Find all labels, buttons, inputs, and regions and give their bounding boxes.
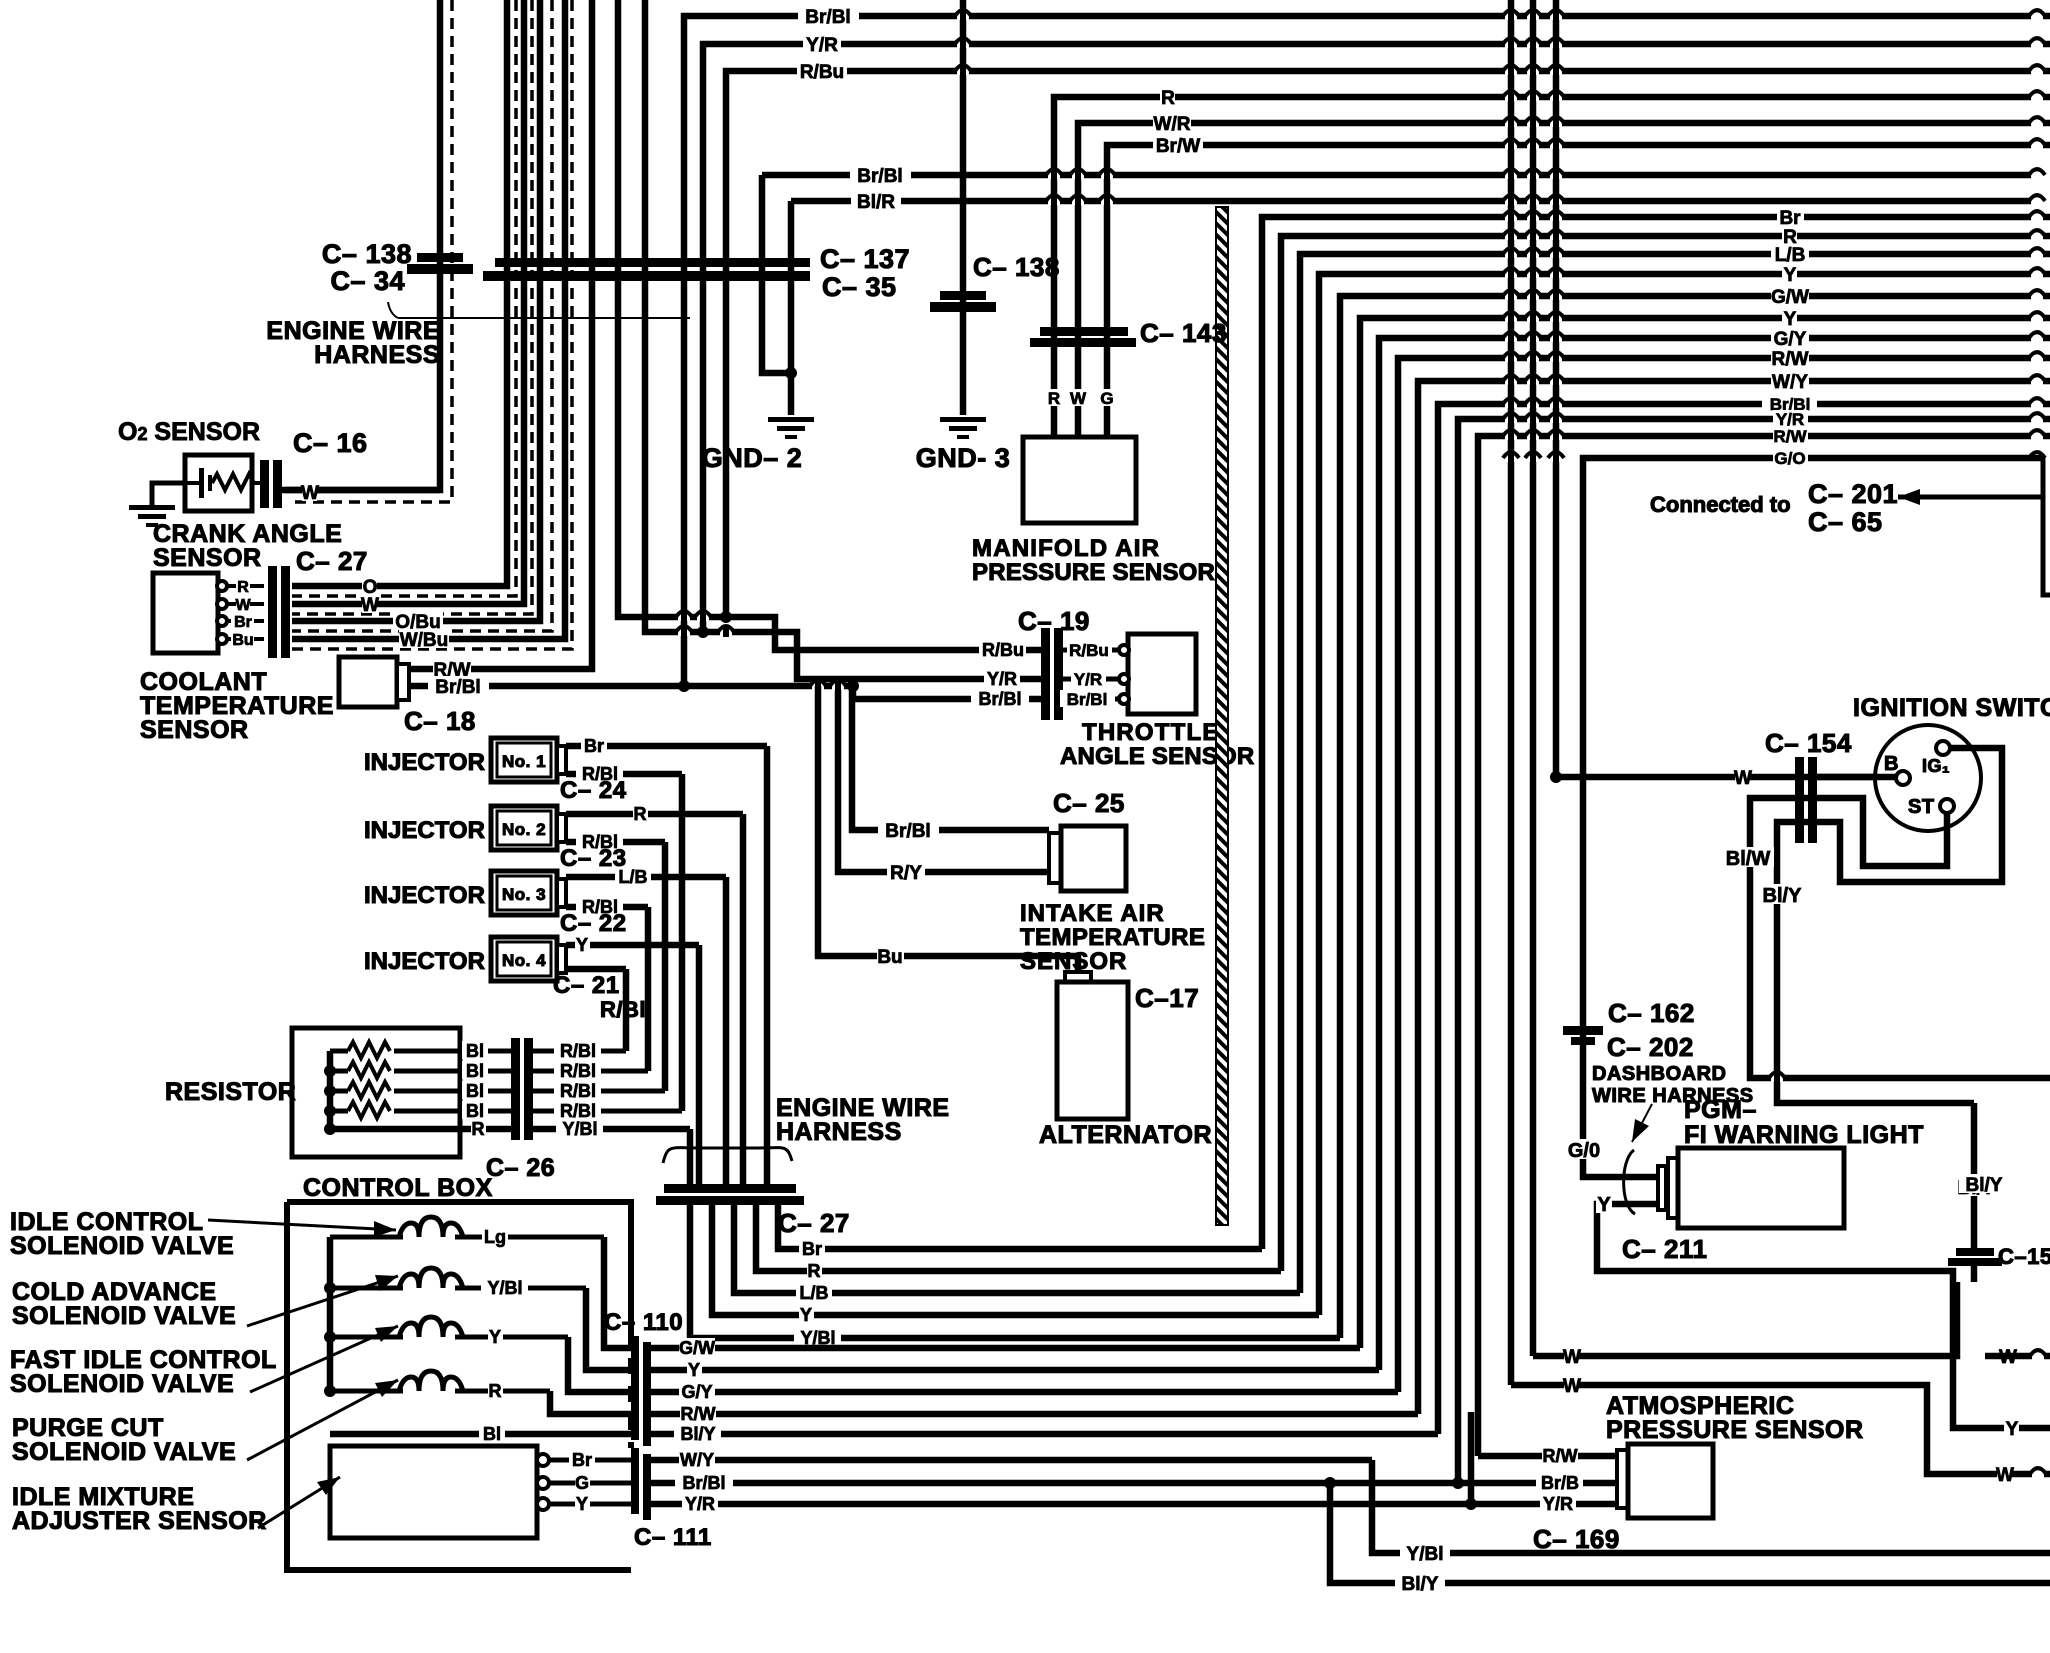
IMA sensor pins — [545, 1458, 631, 1463]
svg-text:R/Bu: R/Bu — [1069, 641, 1109, 660]
node junction Br/B — [1452, 1477, 1464, 1489]
svg-text:Y: Y — [1597, 1194, 1611, 1216]
wire R to C-110 — [550, 1391, 634, 1414]
svg-text:C– 24: C– 24 — [560, 777, 627, 804]
svg-text:C– 110: C– 110 — [604, 1309, 683, 1336]
connector C-27 (crank) — [268, 566, 277, 658]
connector C-26 — [511, 1038, 520, 1140]
svg-text:MANIFOLD AIR: MANIFOLD AIR — [972, 535, 1160, 562]
svg-text:Y/Bl: Y/Bl — [1407, 1544, 1444, 1565]
connector C-27 (lower bus) — [664, 1184, 796, 1193]
crank angle sensor box — [153, 573, 218, 653]
svg-text:Y: Y — [2006, 1419, 2019, 1440]
svg-text:L/B: L/B — [800, 1283, 829, 1303]
svg-text:G: G — [1100, 389, 1113, 408]
idle control solenoid valve coil — [330, 1235, 403, 1240]
svg-text:Bu: Bu — [232, 632, 253, 649]
svg-text:Br/Bl: Br/Bl — [435, 677, 480, 698]
resistor element 4 — [330, 1109, 348, 1114]
svg-text:PRESSURE SENSOR: PRESSURE SENSOR — [972, 559, 1215, 586]
wire injector2 R — [566, 811, 743, 818]
svg-text:W: W — [1563, 1347, 1581, 1368]
wire crank O/Bu run — [292, 0, 540, 621]
harness brace — [663, 1148, 792, 1163]
bundle wire R — [1281, 236, 2050, 1271]
svg-text:No. 2: No. 2 — [502, 820, 546, 839]
svg-text:R: R — [1161, 88, 1175, 109]
wire G/Y row — [651, 1389, 1398, 1396]
svg-text:Y: Y — [489, 1327, 501, 1347]
svg-text:G/Y: G/Y — [1774, 329, 1807, 350]
crank sensor pins — [218, 584, 264, 588]
wire Y/Bl to C-110 — [586, 1288, 634, 1370]
hop Bl/W over Bl/Y — [1771, 1075, 1783, 1082]
svg-text:C– 111: C– 111 — [634, 1524, 712, 1551]
wire crank W/Bu run — [292, 0, 565, 639]
wire crank W run — [292, 0, 524, 604]
svg-text:W: W — [1996, 1465, 2014, 1486]
wire Y/R stub and junction — [1468, 1412, 1475, 1504]
svg-text:Br: Br — [234, 614, 252, 631]
bundle wire Br/Bl — [1438, 404, 2050, 1434]
svg-text:PGM–: PGM– — [1684, 1096, 1757, 1124]
bundle wire W/Y — [1418, 381, 2050, 1414]
wire O2-sensor dashed companion — [290, 0, 452, 502]
wire Bl/R GND row — [788, 201, 795, 415]
svg-text:HARNESS: HARNESS — [314, 341, 440, 369]
svg-text:G/Y: G/Y — [681, 1382, 712, 1402]
svg-text:CONTROL BOX: CONTROL BOX — [303, 1174, 493, 1202]
svg-text:Br: Br — [572, 1450, 592, 1470]
svg-text:W/Y: W/Y — [1772, 372, 1808, 393]
svg-text:Br/Bl: Br/Bl — [885, 821, 930, 842]
bundle wire G/Y — [1379, 338, 2050, 1370]
svg-text:C–156: C–156 — [1998, 1244, 2050, 1269]
svg-text:SOLENOID VALVE: SOLENOID VALVE — [10, 1370, 234, 1398]
bundle wire Y (2) — [1360, 318, 2050, 1348]
resistor element 1 — [330, 1049, 348, 1054]
wire below C-156 — [1971, 1266, 1978, 1282]
svg-text:Bl: Bl — [466, 1061, 484, 1081]
svg-text:Br/Bl: Br/Bl — [978, 689, 1021, 709]
wire W2 to right edge — [1511, 1385, 2050, 1474]
svg-text:Br: Br — [802, 1239, 822, 1259]
bundle wire Y/R — [1458, 419, 2050, 1483]
svg-text:SOLENOID VALVE: SOLENOID VALVE — [12, 1438, 236, 1466]
svg-text:Y/Bl: Y/Bl — [562, 1119, 597, 1139]
svg-text:R/Bu: R/Bu — [982, 640, 1024, 660]
svg-text:GND– 2: GND– 2 — [702, 443, 803, 473]
wire crank O vertical/horizontal — [292, 0, 507, 586]
svg-text:C– 202: C– 202 — [1607, 1032, 1694, 1062]
wire MAP Br/W row — [1107, 145, 2050, 437]
svg-text:TEMPERATURE: TEMPERATURE — [1020, 924, 1205, 951]
bundle wire Br — [1262, 217, 2050, 1249]
connector C-138/C-34 on O2 wire — [417, 253, 463, 262]
wire injector2 R/Bl — [566, 839, 665, 846]
labels left of C-19 — [979, 640, 1026, 658]
svg-text:G/W: G/W — [1771, 287, 1809, 308]
svg-text:C– 162: C– 162 — [1608, 998, 1695, 1028]
connector C-162/C-202 — [1563, 1026, 1603, 1035]
svg-text:SOLENOID VALVE: SOLENOID VALVE — [12, 1302, 236, 1330]
svg-text:R/Bu: R/Bu — [800, 62, 844, 83]
svg-text:R: R — [634, 804, 647, 824]
wire crossing hops (right edge) — [2031, 13, 2043, 20]
wire injector1 R/Bl — [566, 771, 682, 778]
wire W into B pin — [1817, 774, 1898, 781]
wires R/Bl out of C-26 — [533, 1049, 626, 1054]
ignition ST pin and loop — [1750, 798, 2050, 1078]
connector C-19 — [1041, 628, 1050, 720]
wire R/W to atmospheric sensor — [1478, 1453, 1617, 1460]
node junction Br/Bl to intake drop — [847, 680, 859, 692]
svg-text:Bl/Y: Bl/Y — [1966, 1175, 2003, 1196]
wire Y/R bus row 2 — [703, 44, 2050, 632]
wire W1 to C-156 — [1533, 1282, 1957, 1356]
svg-text:ST: ST — [1908, 796, 1935, 818]
svg-text:R: R — [1048, 389, 1060, 408]
svg-text:W: W — [1070, 389, 1087, 408]
svg-text:C– 35: C– 35 — [822, 272, 897, 302]
svg-text:Br/W: Br/W — [1156, 136, 1200, 157]
wire crank W dashed — [292, 0, 532, 614]
svg-text:HARNESS: HARNESS — [776, 1118, 902, 1146]
svg-text:R/Bl: R/Bl — [560, 1101, 596, 1121]
svg-text:C– 201: C– 201 — [1808, 479, 1898, 509]
svg-text:C– 211: C– 211 — [1622, 1234, 1707, 1264]
wire Y/R row to atmospheric sensor — [651, 1501, 1617, 1508]
wire R/Bl4 to resistor — [623, 969, 630, 1051]
label G/O — [1564, 1139, 1604, 1159]
svg-text:C– 138: C– 138 — [322, 239, 412, 269]
idle mixture adjuster sensor box — [330, 1446, 537, 1538]
wire riser L/B to C-27 — [723, 877, 730, 1185]
svg-text:No. 1: No. 1 — [502, 752, 546, 771]
svg-text:Y/R: Y/R — [1074, 670, 1102, 689]
wire Bl/Y row — [651, 1431, 1438, 1438]
connector C-110 — [631, 1336, 639, 1440]
hops on coolant Br/Bl line — [812, 683, 824, 690]
ignition switch circle — [1875, 725, 1981, 831]
svg-text:SOLENOID VALVE: SOLENOID VALVE — [10, 1232, 234, 1260]
svg-text:R/Bl: R/Bl — [560, 1061, 596, 1081]
svg-text:R: R — [489, 1381, 502, 1401]
resistor box — [292, 1028, 460, 1157]
wire O2-sensor main vertical — [285, 0, 440, 490]
svg-text:INTAKE AIR: INTAKE AIR — [1020, 900, 1165, 927]
svg-text:Bl: Bl — [466, 1101, 484, 1121]
node junction Y/R riser — [697, 626, 709, 638]
pass-through wire 3 — [1553, 0, 1560, 777]
node junction at GND-2 — [785, 367, 797, 379]
svg-text:Br/Bl: Br/Bl — [857, 166, 902, 187]
connector C-143 — [1040, 327, 1128, 336]
svg-text:Br/B: Br/B — [1541, 1473, 1579, 1493]
svg-text:G/0: G/0 — [1568, 1140, 1600, 1162]
svg-text:PRESSURE SENSOR: PRESSURE SENSOR — [1606, 1416, 1864, 1444]
wire crossing hops (bundle columns) — [1505, 13, 1517, 20]
svg-text:INJECTOR: INJECTOR — [364, 948, 485, 975]
label Bl/Y right — [1959, 1174, 2009, 1193]
wire R/W coolant — [433, 659, 471, 678]
svg-text:Y/R: Y/R — [1543, 1494, 1573, 1514]
leader line engine wire harness — [388, 302, 398, 318]
svg-text:R/Bl: R/Bl — [560, 1081, 596, 1101]
wire Br/Bl to intake sensor — [852, 686, 1049, 830]
svg-text:Y/R: Y/R — [987, 669, 1017, 689]
wire crank O dashed — [292, 0, 516, 596]
bundle wire L/B — [1300, 254, 2050, 1293]
svg-text:Bl/R: Bl/R — [857, 192, 895, 213]
labels on right bus rows — [1777, 207, 1804, 226]
svg-text:W/Bu: W/Bu — [400, 630, 449, 651]
wire Br/Bl bus row 1 — [684, 16, 2050, 686]
svg-text:W: W — [235, 597, 251, 614]
svg-text:Y: Y — [688, 1360, 700, 1380]
wire injector1 Br — [566, 743, 767, 750]
wire MAP R row — [1054, 97, 2050, 437]
cold advance solenoid valve coil — [330, 1286, 403, 1291]
wire injector3 R/Bl — [566, 904, 648, 911]
svg-text:Br: Br — [1779, 208, 1801, 229]
wire Y/R feed to C-19 — [645, 0, 1041, 679]
wire crank O/Bu dashed — [292, 0, 552, 631]
svg-text:ADJUSTER SENSOR: ADJUSTER SENSOR — [12, 1507, 267, 1535]
wire Br/Bl GND row — [762, 175, 791, 373]
svg-text:C– 137: C– 137 — [820, 244, 910, 274]
wire riser R to C-27 — [740, 814, 747, 1185]
MAP pin labels — [1047, 389, 1061, 406]
resistor element 2 — [330, 1069, 348, 1074]
svg-text:THROTTLE: THROTTLE — [1082, 719, 1220, 746]
dashboard harness bracket — [1632, 1104, 1652, 1142]
svg-text:G: G — [575, 1473, 589, 1493]
purge cut solenoid valve coil — [330, 1389, 403, 1394]
connector C-16 — [260, 460, 269, 508]
wire Y/Bl out of C-26 — [533, 1126, 690, 1133]
svg-text:C– 18: C– 18 — [404, 706, 476, 736]
label Bl/W — [1722, 847, 1774, 867]
svg-text:Bl/Y: Bl/Y — [1402, 1574, 1439, 1595]
svg-text:Y/R: Y/R — [685, 1494, 715, 1514]
svg-text:G/O: G/O — [1774, 449, 1805, 468]
labels on crank wires — [362, 576, 377, 595]
svg-text:R: R — [472, 1119, 485, 1139]
svg-text:C– 25: C– 25 — [1053, 788, 1125, 818]
svg-text:Y: Y — [576, 935, 588, 955]
svg-text:SENSOR: SENSOR — [140, 716, 249, 744]
wire R/Y to intake sensor — [838, 686, 1049, 872]
O2 sensor ground — [152, 483, 185, 505]
O2 sensor box — [185, 455, 252, 511]
label Bl/Y — [1756, 884, 1808, 904]
wire R/Bl2 to resistor — [662, 842, 669, 1091]
wire R/Bu bus row 3 — [726, 71, 2050, 617]
svg-text:Br/Bl: Br/Bl — [1067, 690, 1108, 709]
svg-text:Bl: Bl — [466, 1081, 484, 1101]
svg-text:Connected to: Connected to — [1650, 492, 1791, 517]
wire Y/Bl bottom — [1372, 1460, 2050, 1553]
resistor element 3 — [330, 1089, 348, 1094]
svg-text:No. 3: No. 3 — [502, 885, 546, 904]
connected-to arrow — [2041, 458, 2046, 497]
svg-text:Bu: Bu — [877, 947, 902, 968]
svg-text:W/Y: W/Y — [680, 1450, 714, 1470]
svg-text:RESISTOR: RESISTOR — [165, 1078, 296, 1106]
wire W from O2 sensor — [280, 487, 440, 494]
O2 sensor internal symbol — [185, 481, 203, 485]
svg-text:Y: Y — [1784, 265, 1797, 286]
svg-text:W: W — [1734, 768, 1752, 789]
svg-text:C–17: C–17 — [1135, 983, 1199, 1013]
svg-text:W: W — [361, 595, 379, 616]
warning light box — [1678, 1148, 1844, 1228]
wire riser Y to C-27 — [696, 945, 703, 1185]
fast idle control solenoid valve coil — [330, 1335, 403, 1340]
intake air temp sensor box — [1049, 833, 1061, 883]
ignition IG1 pin and loop — [1777, 748, 2002, 1103]
svg-text:C– 19: C– 19 — [1018, 606, 1090, 636]
svg-text:G/W: G/W — [679, 1338, 715, 1358]
svg-text:C– 65: C– 65 — [1808, 507, 1883, 537]
svg-text:Lg: Lg — [484, 1227, 506, 1247]
svg-text:C– 27: C– 27 — [296, 546, 368, 576]
wire Br/Bl coolant to C-19 — [410, 683, 853, 690]
bundle wire G/W — [1340, 296, 2050, 1338]
svg-text:C– 16: C– 16 — [293, 428, 368, 458]
wire R below C-27 — [756, 1204, 1281, 1271]
svg-text:Y: Y — [1784, 309, 1797, 330]
wire Br/Bl row to atmospheric sensor — [651, 1480, 1617, 1487]
coolant sensor box — [339, 657, 397, 707]
svg-text:R/W: R/W — [681, 1404, 716, 1424]
wire ignition feed W — [1556, 774, 1896, 781]
wire L/B below C-27 — [734, 1204, 1300, 1293]
wire Y to C-110 — [568, 1337, 634, 1392]
control box internal bus — [327, 1237, 334, 1391]
wire Y row — [651, 1367, 1379, 1374]
pass-through wire 2 — [1530, 0, 1537, 1356]
svg-text:C– 21: C– 21 — [553, 972, 620, 999]
bundle wire R/W — [1398, 358, 2050, 1392]
svg-text:Bl/Y: Bl/Y — [680, 1424, 715, 1444]
svg-text:R/Y: R/Y — [890, 863, 922, 884]
pass-through wire 1 — [1508, 0, 1515, 1385]
svg-text:DASHBOARD: DASHBOARD — [1592, 1063, 1727, 1085]
svg-text:R: R — [808, 1261, 821, 1281]
svg-text:L/B: L/B — [619, 867, 648, 887]
wire Bl/Y down to C-156 — [1971, 1103, 1978, 1250]
connector C-138 (second) — [940, 291, 986, 300]
svg-text:SENSOR: SENSOR — [153, 544, 262, 572]
svg-text:FI WARNING LIGHT: FI WARNING LIGHT — [1684, 1121, 1924, 1149]
svg-text:R/Bl: R/Bl — [560, 1041, 596, 1061]
svg-text:W/R: W/R — [1154, 114, 1191, 135]
svg-text:Bl: Bl — [466, 1041, 484, 1061]
svg-text:B: B — [1884, 753, 1899, 775]
wire Br below C-27 — [778, 1204, 1262, 1249]
wire R/Bl1 to resistor — [679, 774, 686, 1111]
bundle wire R/W (2) — [1478, 436, 2050, 1456]
svg-text:No. 4: No. 4 — [502, 951, 546, 970]
hatched harness divider bar — [1216, 207, 1228, 1225]
wire Y/Bl below C-27 — [690, 1204, 1340, 1338]
wire Y/Bl resistor to C-27 — [687, 1129, 694, 1185]
svg-text:INJECTOR: INJECTOR — [364, 749, 485, 776]
bundle wire Y — [1319, 274, 2050, 1315]
wire W/Y row — [651, 1457, 1372, 1464]
svg-text:C– 34: C– 34 — [330, 266, 405, 296]
connector C-111 — [631, 1448, 639, 1514]
wire coolant R/W riser — [410, 0, 592, 669]
label Y at right edge — [2004, 1418, 2019, 1437]
svg-text:Br: Br — [584, 736, 604, 756]
svg-text:C– 169: C– 169 — [1533, 1524, 1620, 1554]
svg-text:Br/Bl: Br/Bl — [682, 1473, 725, 1493]
svg-text:GND- 3: GND- 3 — [916, 443, 1011, 473]
svg-text:C– 26: C– 26 — [486, 1154, 555, 1182]
wire Y from warning light — [1597, 1204, 2050, 1428]
wire Y below C-27 — [712, 1204, 1319, 1315]
svg-text:R/W: R/W — [1543, 1446, 1578, 1466]
svg-text:C– 27: C– 27 — [778, 1208, 850, 1238]
svg-text:C– 22: C– 22 — [560, 910, 627, 937]
connector C-156 — [1956, 1248, 1994, 1256]
wire G/W row — [651, 1345, 1360, 1352]
svg-text:IGNITION SWITCH: IGNITION SWITCH — [1853, 694, 2050, 722]
manifold air pressure sensor box — [1023, 437, 1136, 523]
wire injector4 Y — [566, 942, 699, 949]
atmospheric sensor box — [1617, 1450, 1628, 1508]
node junction R/Bu riser — [720, 611, 732, 623]
svg-text:W: W — [1563, 1376, 1581, 1397]
svg-text:ALTERNATOR: ALTERNATOR — [1039, 1121, 1212, 1149]
svg-text:C– 138: C– 138 — [973, 252, 1060, 282]
svg-text:L/B: L/B — [1775, 245, 1806, 266]
svg-text:Y: Y — [800, 1305, 812, 1325]
wire Bu to alternator — [818, 686, 1078, 974]
wire R/Bu feed to C-19 — [618, 0, 1041, 650]
svg-text:INJECTOR: INJECTOR — [364, 882, 485, 909]
ignition B pin — [1896, 771, 1910, 785]
resistor internal bus — [327, 1051, 334, 1129]
svg-text:R/W: R/W — [1772, 349, 1809, 370]
svg-text:Bl/Y: Bl/Y — [1763, 885, 1803, 907]
wire injector3 L/B — [566, 874, 726, 881]
wire R/W row — [651, 1411, 1418, 1418]
wire injector4 R/Bl drop — [566, 966, 626, 973]
wire GND-3 vertical — [960, 0, 967, 415]
labels on upper bus rows — [798, 6, 859, 25]
svg-text:Y/R: Y/R — [806, 35, 838, 56]
svg-text:Bl/W: Bl/W — [1726, 848, 1771, 870]
connector C-137/C-35 bus — [495, 258, 810, 267]
alternator body — [1065, 972, 1091, 984]
wire Bl/Y bottom — [1330, 1483, 2050, 1583]
svg-text:W: W — [301, 483, 319, 504]
warning light connector — [1658, 1166, 1666, 1210]
svg-text:R/W: R/W — [1773, 427, 1807, 446]
throttle angle sensor box — [1063, 648, 1120, 653]
wire riser Br to C-27 — [764, 746, 771, 1185]
wire crossing hops (GND-3 column) — [957, 13, 969, 20]
wire crossing hops (MAP columns) — [1048, 172, 1060, 179]
svg-text:Bl: Bl — [483, 1424, 501, 1444]
wire crank W/Bu dashed — [292, 0, 572, 649]
wire Lg to C-110 — [604, 1237, 634, 1348]
node junction Br/Bl riser — [678, 680, 690, 692]
